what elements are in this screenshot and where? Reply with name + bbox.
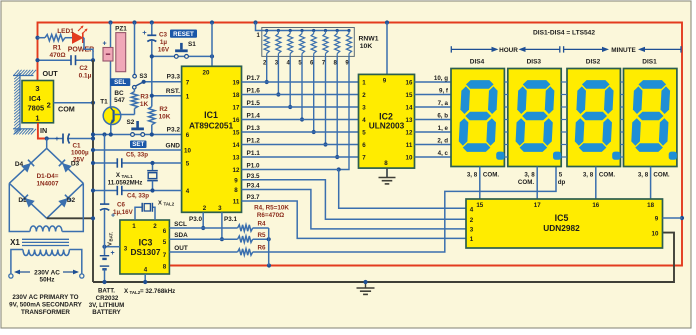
svg-text:5: 5 bbox=[559, 172, 563, 179]
svg-text:1K: 1K bbox=[140, 101, 149, 108]
svg-text:1, e: 1, e bbox=[438, 125, 449, 132]
svg-text:1µ,16V: 1µ,16V bbox=[113, 209, 134, 216]
wire P1.1 to IC2 pin7 bbox=[242, 156, 359, 158]
svg-text:SCL: SCL bbox=[174, 221, 187, 228]
svg-text:C2: C2 bbox=[79, 65, 88, 72]
wire P1.2 to IC2 pin6 bbox=[242, 144, 359, 146]
svg-text:8: 8 bbox=[234, 187, 238, 194]
wire P3.4 to IC5 pin3 bbox=[242, 190, 467, 229]
svg-text:12: 12 bbox=[233, 167, 240, 174]
svg-text:10: 10 bbox=[652, 231, 659, 238]
svg-text:DIS4: DIS4 bbox=[470, 59, 485, 66]
node +5V at R1 bbox=[35, 36, 39, 40]
svg-text:SEL: SEL bbox=[114, 79, 126, 86]
svg-text:C3: C3 bbox=[159, 32, 168, 39]
svg-text:3: 3 bbox=[470, 227, 474, 234]
svg-text:4, c: 4, c bbox=[438, 150, 449, 157]
wire P1.6 to IC2 pin2 bbox=[242, 94, 359, 96]
svg-text:R2: R2 bbox=[159, 106, 168, 113]
diode D1 bbox=[9, 183, 46, 218]
svg-text:2, d: 2, d bbox=[437, 137, 448, 144]
wire segment 4, c bbox=[415, 156, 452, 158]
svg-text:11.0592MHz: 11.0592MHz bbox=[108, 179, 143, 186]
wire IC5 pin9 to VCC bbox=[663, 217, 683, 219]
wire XTAL1 pin5 line bbox=[93, 162, 117, 164]
transistor T1 BC547 bbox=[103, 107, 121, 125]
svg-text:3, 8: 3, 8 bbox=[583, 172, 594, 179]
crystal XTAL2 bbox=[135, 207, 142, 220]
svg-text:BAT.: BAT. bbox=[109, 232, 114, 241]
resistor R3 bbox=[133, 89, 135, 91]
svg-text:4: 4 bbox=[362, 117, 366, 124]
svg-text:+: + bbox=[142, 28, 147, 37]
svg-text:14: 14 bbox=[406, 105, 413, 112]
svg-text:P1.0: P1.0 bbox=[247, 163, 260, 170]
svg-text:2: 2 bbox=[153, 223, 157, 230]
wire piezo supply bbox=[110, 23, 112, 107]
svg-text:COM.: COM. bbox=[518, 179, 534, 186]
svg-text:16: 16 bbox=[233, 117, 240, 124]
svg-text:OUT: OUT bbox=[174, 245, 188, 252]
svg-text:6: 6 bbox=[362, 142, 366, 149]
svg-text:D1: D1 bbox=[18, 197, 27, 204]
svg-text:X1: X1 bbox=[10, 238, 20, 247]
svg-text:SDA: SDA bbox=[174, 232, 188, 239]
node C2 right on ground run bbox=[91, 58, 95, 62]
svg-text:COM.: COM. bbox=[483, 172, 499, 179]
wire DIS4 common to IC5 bbox=[479, 167, 481, 200]
svg-text:IC3: IC3 bbox=[139, 238, 153, 248]
svg-text:15: 15 bbox=[406, 92, 413, 99]
svg-text:1: 1 bbox=[470, 236, 474, 243]
resistor R2 bbox=[151, 96, 153, 107]
svg-text:P1.6: P1.6 bbox=[247, 88, 261, 95]
svg-text:3, 8: 3, 8 bbox=[524, 172, 535, 179]
svg-text:3: 3 bbox=[35, 84, 39, 93]
svg-text:+: + bbox=[102, 41, 106, 48]
svg-text:IN: IN bbox=[40, 126, 47, 135]
svg-text:19: 19 bbox=[233, 80, 240, 87]
wire P3.2 / S2 line bbox=[93, 134, 182, 136]
dimension HOUR/MINUTE bbox=[450, 46, 452, 52]
svg-text:7: 7 bbox=[362, 155, 366, 162]
svg-text:20: 20 bbox=[203, 70, 210, 77]
wire XTAL1 pin4 line bbox=[93, 190, 117, 192]
wire P1.5 to IC2 pin3 bbox=[242, 106, 359, 108]
crystal XTAL1 bbox=[152, 163, 154, 171]
capacitor C1 bbox=[47, 138, 63, 140]
node VCC at IC5 pin9 bbox=[680, 216, 684, 220]
svg-text:P3.4: P3.4 bbox=[247, 183, 260, 190]
wire RST bbox=[152, 95, 182, 97]
svg-text:6, b: 6, b bbox=[437, 112, 448, 119]
battery BATT CR2032 bbox=[100, 255, 109, 257]
svg-text:0.1µ: 0.1µ bbox=[79, 73, 92, 80]
svg-text:GND: GND bbox=[166, 142, 181, 149]
svg-text:9, f: 9, f bbox=[439, 87, 449, 94]
regulator IC4 7805 bbox=[22, 81, 54, 123]
wire ground vertical run bbox=[92, 60, 94, 282]
display DIS2 bbox=[567, 69, 620, 167]
svg-text:1: 1 bbox=[186, 93, 190, 100]
wire SCL with resistor R4 bbox=[169, 227, 237, 229]
svg-text:RESET: RESET bbox=[173, 31, 194, 38]
svg-text:470Ω: 470Ω bbox=[49, 52, 65, 59]
wire P3.3 bbox=[144, 81, 182, 83]
svg-text:C4, 33p: C4, 33p bbox=[127, 192, 149, 199]
svg-text:X: X bbox=[158, 201, 162, 207]
svg-text:C5, 33p: C5, 33p bbox=[126, 152, 148, 159]
wire display bus ticks bbox=[504, 81, 507, 83]
svg-text:3: 3 bbox=[218, 205, 222, 212]
svg-text:2: 2 bbox=[47, 101, 51, 110]
svg-text:MINUTE: MINUTE bbox=[611, 47, 636, 54]
svg-text:16: 16 bbox=[592, 202, 599, 209]
svg-text:IC5: IC5 bbox=[555, 213, 569, 223]
svg-text:4: 4 bbox=[470, 206, 474, 213]
node rail junction at S3 branch bbox=[132, 20, 136, 24]
resistor R1 bbox=[38, 37, 46, 39]
wire LED cathode to ground rail bbox=[83, 37, 84, 39]
svg-text:P1.3: P1.3 bbox=[247, 125, 261, 132]
ground symbol at IC2 bbox=[386, 168, 388, 177]
svg-text:3V, LITHIUM: 3V, LITHIUM bbox=[89, 302, 125, 309]
wire segment 6, b bbox=[415, 119, 452, 121]
capacitor C5 bbox=[116, 158, 118, 167]
node rail junction at RNW1 pin1 bbox=[253, 20, 257, 24]
svg-text:OUT: OUT bbox=[43, 69, 59, 78]
svg-text:17: 17 bbox=[534, 202, 541, 209]
wire segment 10, g bbox=[415, 81, 452, 83]
diode D2 bbox=[47, 183, 84, 218]
svg-text:RNW1: RNW1 bbox=[358, 36, 378, 43]
svg-text:7: 7 bbox=[163, 252, 167, 259]
switch S1 / reset bbox=[152, 55, 212, 57]
svg-text:10K: 10K bbox=[360, 43, 373, 50]
svg-text:2: 2 bbox=[203, 205, 207, 212]
wire DIS1 common to IC5 bbox=[650, 167, 652, 200]
svg-text:P1.1: P1.1 bbox=[247, 150, 261, 157]
driver IC2 ULN2003 bbox=[359, 74, 415, 168]
svg-text:DIS3: DIS3 bbox=[527, 59, 542, 66]
svg-text:1000µ: 1000µ bbox=[71, 150, 89, 157]
wire IC3 pin4 to ground bbox=[144, 274, 146, 282]
wire primary left lead bbox=[11, 250, 23, 274]
svg-text:3: 3 bbox=[362, 105, 366, 112]
svg-text:18: 18 bbox=[233, 92, 240, 99]
svg-text:V: V bbox=[108, 242, 114, 246]
svg-text:P3.7: P3.7 bbox=[247, 194, 260, 201]
wire OUT with resistor R6 to display dp bbox=[169, 251, 237, 253]
svg-text:2: 2 bbox=[470, 217, 474, 224]
svg-text:4: 4 bbox=[186, 188, 190, 195]
wire bridge right AC to secondary bbox=[62, 183, 83, 231]
wire VBAT vertical bbox=[104, 135, 106, 205]
RTC IC3 DS1307 bbox=[120, 220, 169, 274]
svg-text:+: + bbox=[111, 250, 115, 257]
wire DIS2 common to IC5 bbox=[595, 167, 597, 200]
label SET bbox=[130, 141, 147, 149]
wire T1 emitter to switch line bbox=[110, 124, 112, 135]
wire P3.1 bbox=[221, 212, 223, 239]
svg-text:9V, 500mA SECONDARY: 9V, 500mA SECONDARY bbox=[9, 302, 83, 309]
svg-text:3, 8: 3, 8 bbox=[467, 172, 478, 179]
svg-text:CR2032: CR2032 bbox=[96, 295, 119, 302]
svg-text:C1: C1 bbox=[73, 143, 82, 150]
svg-text:R4: R4 bbox=[257, 220, 266, 227]
svg-text:12: 12 bbox=[406, 130, 413, 137]
wire P1.0 to IC5 pin4 bbox=[242, 169, 339, 171]
wire P1.7 to IC2 pin1 bbox=[242, 81, 359, 83]
capacitor C2 bbox=[38, 59, 72, 61]
svg-text:DIS2: DIS2 bbox=[586, 59, 601, 66]
diode D4 bbox=[9, 148, 46, 183]
wire rail to IC1 pin20 bbox=[211, 23, 213, 67]
svg-text:3: 3 bbox=[124, 246, 128, 253]
wire +5V rail (red) bbox=[38, 23, 683, 266]
svg-text:UDN2982: UDN2982 bbox=[543, 223, 580, 233]
svg-text:7805: 7805 bbox=[28, 104, 45, 113]
wire bridge top node bbox=[46, 139, 48, 149]
svg-text:COM.: COM. bbox=[653, 172, 669, 179]
svg-text:TAL2: TAL2 bbox=[164, 202, 175, 207]
svg-text:P3.2: P3.2 bbox=[167, 127, 181, 134]
svg-text:R4, R5=10K: R4, R5=10K bbox=[254, 205, 289, 212]
wire P3.5 to IC5 pin2 bbox=[242, 180, 467, 220]
wire IC3 pin3 VBAT bbox=[105, 246, 120, 248]
svg-text:13: 13 bbox=[406, 117, 413, 124]
wire bridge negative to ground run bbox=[47, 217, 93, 219]
svg-text:R1: R1 bbox=[53, 45, 62, 52]
microcontroller IC1 AT89C2051 bbox=[182, 66, 242, 212]
svg-text:1N4007: 1N4007 bbox=[36, 181, 59, 188]
wire segment 7, a bbox=[415, 106, 452, 108]
svg-text:SET: SET bbox=[132, 141, 144, 148]
svg-text:C6: C6 bbox=[117, 202, 125, 209]
svg-text:10: 10 bbox=[406, 155, 413, 162]
svg-text:TAL1: TAL1 bbox=[122, 174, 134, 179]
svg-text:TRANSFORMER: TRANSFORMER bbox=[21, 309, 70, 316]
switch S3 bbox=[133, 74, 137, 78]
svg-text:14: 14 bbox=[233, 142, 240, 149]
svg-text:HOUR: HOUR bbox=[499, 47, 518, 54]
capacitor C6 bbox=[100, 203, 109, 205]
wire P1.3 to IC2 pin5 bbox=[242, 131, 359, 133]
svg-text:50Hz: 50Hz bbox=[40, 277, 55, 284]
svg-text:6: 6 bbox=[163, 228, 167, 235]
wire IC4 COM to ground bbox=[54, 102, 94, 104]
svg-text:547: 547 bbox=[114, 97, 125, 104]
svg-text:5: 5 bbox=[163, 239, 167, 246]
display DIS4 bbox=[451, 69, 504, 167]
svg-text:P3.5: P3.5 bbox=[247, 173, 260, 180]
capacitor C4 bbox=[116, 186, 118, 195]
svg-text:230V AC PRIMARY TO: 230V AC PRIMARY TO bbox=[12, 294, 78, 301]
svg-text:5: 5 bbox=[362, 130, 366, 137]
piezo buzzer PZ1 bbox=[103, 48, 113, 62]
svg-text:ULN2003: ULN2003 bbox=[369, 121, 405, 131]
wire RNW1 drops to port lines bbox=[266, 56, 268, 82]
svg-text:10, g: 10, g bbox=[434, 75, 448, 82]
svg-text:R5: R5 bbox=[257, 232, 266, 239]
svg-text:D4: D4 bbox=[15, 161, 24, 168]
svg-text:COM.: COM. bbox=[599, 172, 615, 179]
svg-text:10: 10 bbox=[184, 148, 191, 155]
wire segment 1, e bbox=[415, 131, 452, 133]
svg-text:S3: S3 bbox=[139, 73, 147, 80]
svg-text:DIS1-DIS4 = LTS542: DIS1-DIS4 = LTS542 bbox=[533, 30, 595, 37]
svg-text:P3.1: P3.1 bbox=[224, 216, 237, 223]
node VCC at pull-up resistors bbox=[267, 263, 271, 267]
svg-text:5: 5 bbox=[186, 161, 190, 168]
svg-text:R3: R3 bbox=[140, 94, 149, 101]
svg-text:9: 9 bbox=[234, 178, 238, 185]
svg-text:R6: R6 bbox=[257, 245, 266, 252]
svg-text:P1.2: P1.2 bbox=[247, 138, 261, 145]
capacitor C3 bbox=[151, 23, 153, 36]
svg-text:11: 11 bbox=[233, 199, 240, 206]
svg-text:DIS1: DIS1 bbox=[642, 59, 657, 66]
label SEL bbox=[110, 78, 130, 86]
wire rail to IC2 pin9 bbox=[386, 23, 388, 75]
svg-text:4: 4 bbox=[144, 267, 148, 274]
svg-text:18: 18 bbox=[647, 202, 654, 209]
svg-text:LED1: LED1 bbox=[57, 28, 74, 35]
wire GND pin10 bbox=[93, 149, 182, 151]
wire SDA with resistor R5 bbox=[169, 238, 237, 240]
svg-text:9: 9 bbox=[383, 77, 387, 84]
svg-text:13: 13 bbox=[233, 155, 240, 162]
svg-text:= 32.768kHz: = 32.768kHz bbox=[140, 288, 175, 295]
svg-text:dp: dp bbox=[558, 179, 566, 186]
svg-text:P1.7: P1.7 bbox=[247, 75, 261, 82]
node rail junction at C3 bbox=[150, 20, 154, 24]
svg-text:P1.5: P1.5 bbox=[247, 100, 261, 107]
svg-text:D1-D4=: D1-D4= bbox=[37, 173, 59, 180]
svg-text:17: 17 bbox=[233, 105, 240, 112]
svg-text:15: 15 bbox=[476, 202, 483, 209]
svg-text:10K: 10K bbox=[159, 114, 171, 121]
ground symbol on ground bus bbox=[365, 282, 367, 288]
svg-text:+: + bbox=[55, 134, 60, 143]
svg-text:15: 15 bbox=[233, 130, 240, 137]
svg-text:9: 9 bbox=[655, 216, 659, 223]
wire P3.7 to IC5 pin1 bbox=[242, 201, 467, 238]
svg-text:R6=470Ω: R6=470Ω bbox=[257, 212, 284, 219]
driver IC5 UDN2982 bbox=[466, 199, 663, 248]
wire IC2 pin8 ground bbox=[386, 168, 388, 177]
transformer X1 bbox=[30, 226, 62, 231]
svg-text:1: 1 bbox=[35, 114, 39, 123]
display DIS1 bbox=[624, 69, 677, 167]
wire bridge left AC to secondary bbox=[9, 183, 30, 231]
wire DIS3 common to IC5 bbox=[536, 167, 538, 200]
svg-text:PZ1: PZ1 bbox=[115, 26, 127, 33]
svg-text:BATTERY: BATTERY bbox=[92, 309, 121, 316]
switch S2 bbox=[131, 133, 135, 137]
wire segment 9, f bbox=[415, 94, 452, 96]
label RESET bbox=[170, 30, 197, 38]
svg-text:P3.0: P3.0 bbox=[189, 216, 202, 223]
svg-text:2: 2 bbox=[362, 92, 366, 99]
svg-text:S2: S2 bbox=[127, 119, 135, 126]
svg-text:P3.3: P3.3 bbox=[167, 74, 181, 81]
wire P3.0 bbox=[202, 212, 204, 228]
svg-text:11: 11 bbox=[406, 142, 413, 149]
svg-text:DS1307: DS1307 bbox=[131, 247, 161, 257]
node rail junction at IC1 pin20 bbox=[210, 20, 214, 24]
resistor network RNW1 bbox=[262, 28, 355, 57]
svg-text:8: 8 bbox=[163, 264, 167, 271]
svg-text:3, 8: 3, 8 bbox=[638, 172, 649, 179]
heatsink for IC4 bbox=[19, 73, 21, 131]
wire pull-up to VCC bbox=[268, 228, 270, 266]
svg-text:16: 16 bbox=[406, 80, 413, 87]
svg-text:1: 1 bbox=[132, 223, 136, 230]
wire IC4 IN (red) bbox=[38, 123, 47, 139]
wire ground bus bottom bbox=[93, 233, 674, 282]
svg-text:7, a: 7, a bbox=[438, 100, 449, 107]
wire rail to S3 bbox=[134, 23, 136, 75]
svg-text:IC4: IC4 bbox=[29, 94, 42, 103]
diode D3 bbox=[47, 148, 84, 183]
node rail junction at IC2 pin9 bbox=[385, 20, 389, 24]
svg-text:BATT.: BATT. bbox=[98, 288, 115, 295]
svg-text:P1.4: P1.4 bbox=[247, 113, 261, 120]
svg-text:T1: T1 bbox=[100, 98, 108, 105]
svg-text:AT89C2051: AT89C2051 bbox=[189, 121, 234, 131]
node bridge output to C1 line bbox=[45, 136, 49, 140]
svg-text:1: 1 bbox=[362, 80, 366, 87]
svg-text:RST.: RST. bbox=[166, 88, 180, 95]
svg-text:230V AC: 230V AC bbox=[34, 270, 60, 277]
svg-text:7: 7 bbox=[186, 80, 190, 87]
LED LED1 bbox=[73, 33, 83, 44]
svg-text:COM: COM bbox=[58, 105, 75, 114]
node rail junction at piezo bbox=[108, 20, 112, 24]
node C1 right on ground run bbox=[91, 136, 95, 140]
wire P1.4 to IC2 pin4 bbox=[242, 119, 359, 121]
svg-text:6: 6 bbox=[186, 132, 190, 139]
svg-text:S1: S1 bbox=[188, 41, 196, 48]
svg-text:16V: 16V bbox=[158, 47, 170, 54]
svg-text:8: 8 bbox=[384, 160, 388, 167]
display DIS3 bbox=[508, 69, 561, 167]
wire primary right lead bbox=[69, 250, 81, 274]
wire segment 2, d bbox=[415, 144, 452, 146]
svg-text:IC1: IC1 bbox=[204, 110, 218, 120]
svg-text:D3: D3 bbox=[71, 161, 80, 168]
svg-text:1µ: 1µ bbox=[160, 39, 168, 46]
svg-text:D2: D2 bbox=[67, 197, 76, 204]
node C2 left on +5V bbox=[35, 58, 39, 62]
